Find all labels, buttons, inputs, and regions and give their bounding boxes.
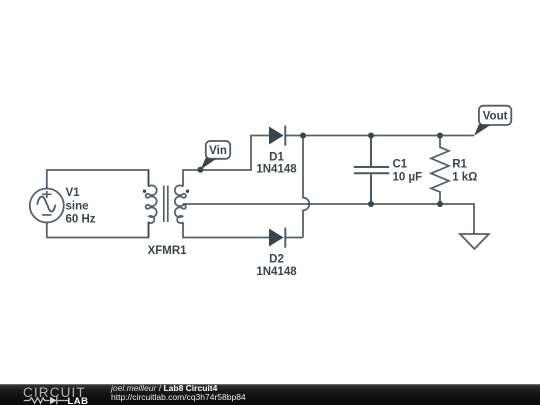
- wire secondary top lead to Vin rail: [183, 136, 269, 187]
- diode D2 triangle: [269, 229, 284, 247]
- svg-text:LAB: LAB: [68, 396, 89, 405]
- svg-text:C1: C1: [393, 158, 408, 170]
- transformer XFMR1 primary winding: [146, 185, 157, 223]
- ground symbol: [460, 234, 489, 249]
- wire secondary bottom lead to D2 anode: [183, 222, 269, 237]
- node dot output-R1: [437, 133, 443, 139]
- CircuitLab logo: [18, 384, 98, 405]
- wire center tap rail: [183, 204, 474, 234]
- svg-text:R1: R1: [452, 158, 467, 170]
- node dot tap-R1: [437, 201, 443, 207]
- node dot Vin: [197, 167, 203, 173]
- transformer XFMR1 secondary winding: [175, 185, 186, 223]
- svg-text:sine: sine: [66, 200, 89, 212]
- flag box Vout: [479, 106, 511, 125]
- svg-text:1N4148: 1N4148: [256, 266, 297, 278]
- svg-text:Vin: Vin: [209, 145, 227, 157]
- resistor R1: [431, 136, 449, 205]
- flag box Vin: [206, 141, 230, 159]
- svg-text:V1: V1: [66, 187, 81, 199]
- transformer core: [164, 186, 168, 223]
- transformer polarity dot primary: [143, 190, 146, 193]
- wire primary winding leads: [148, 170, 150, 238]
- svg-text:1 kΩ: 1 kΩ: [452, 172, 477, 184]
- wire primary bottom rail: [47, 222, 149, 238]
- footer bar: [0, 384, 540, 405]
- svg-text:1N4148: 1N4148: [256, 164, 297, 176]
- node dot output-C1: [368, 133, 374, 139]
- wire D2 cathode to output node with hop: [285, 136, 309, 238]
- svg-text:D2: D2: [269, 254, 284, 266]
- svg-text:60 Hz: 60 Hz: [66, 214, 96, 226]
- flag pointer Vin: [200, 158, 218, 170]
- node dot output-D1: [300, 133, 306, 139]
- wire primary top rail: [47, 170, 149, 189]
- voltage source V1: [30, 189, 64, 223]
- svg-text:D1: D1: [269, 151, 284, 163]
- flag pointer Vout: [474, 124, 492, 136]
- capacitor C1: [354, 136, 389, 205]
- diode D1 triangle: [269, 127, 284, 145]
- diode D1 bar: [284, 126, 286, 146]
- transformer polarity dot secondary: [186, 190, 189, 193]
- svg-text:10 µF: 10 µF: [393, 172, 423, 184]
- svg-text:XFMR1: XFMR1: [148, 245, 188, 257]
- diode D2 bar: [284, 228, 286, 248]
- wire top output rail: [285, 135, 474, 137]
- labels: [66, 151, 478, 278]
- svg-text:Vout: Vout: [483, 110, 508, 122]
- node dot tap-C1: [368, 201, 374, 207]
